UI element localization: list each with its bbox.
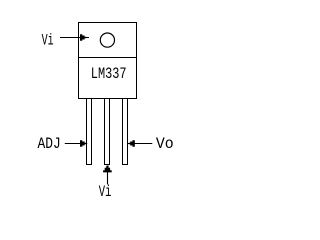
pin 2 (Vi leg) <box>105 99 110 165</box>
tab divider line <box>78 57 137 59</box>
node Vo (label) <box>156 135 174 153</box>
svg-text:Vo: Vo <box>156 135 174 153</box>
pin 1 (ADJ leg) <box>87 99 92 165</box>
wire arrow to pin 1 (ADJ) <box>65 140 87 147</box>
node Vi (bottom label) <box>99 183 112 201</box>
svg-text:ADJ: ADJ <box>38 135 61 153</box>
value label LM337 <box>91 65 127 83</box>
node ADJ (label) <box>38 135 61 153</box>
svg-text:Vi: Vi <box>42 32 54 50</box>
wire arrow to pin 3 (Vo) <box>128 140 153 147</box>
package outline U1 (TO-220 body of LM337) <box>79 23 137 99</box>
mounting hole <box>100 33 114 47</box>
pin 3 (Vo leg) <box>123 99 128 165</box>
node Vi (top label) <box>42 32 54 50</box>
wire arrow to pin 2 (Vi bottom) <box>103 166 112 185</box>
wire arrow to tab (Vi input) <box>60 34 89 41</box>
svg-text:Vi: Vi <box>99 183 112 201</box>
svg-text:LM337: LM337 <box>91 65 127 83</box>
